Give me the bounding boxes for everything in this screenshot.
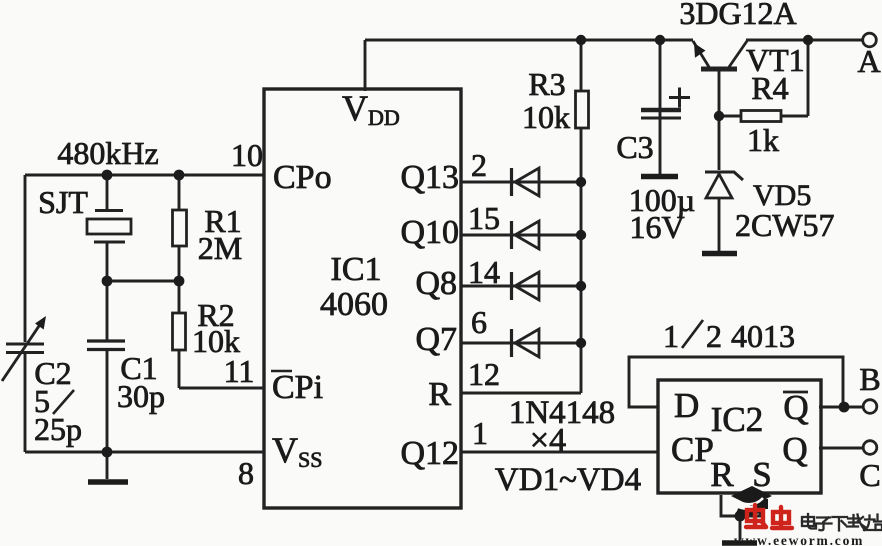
svg-text:10: 10 <box>231 137 263 173</box>
svg-text:R: R <box>428 376 451 413</box>
svg-text:11: 11 <box>224 353 255 389</box>
svg-text:15: 15 <box>468 200 500 236</box>
svg-text:VDD: VDD <box>342 88 400 130</box>
svg-text:VD1~VD4: VD1~VD4 <box>495 462 641 498</box>
svg-text:2: 2 <box>471 147 487 183</box>
svg-text:IC2: IC2 <box>711 400 764 439</box>
svg-text:R: R <box>710 455 734 494</box>
svg-text:16V: 16V <box>629 209 684 245</box>
svg-text:6: 6 <box>471 304 487 340</box>
svg-text:R4: R4 <box>751 70 788 106</box>
svg-text:CPo: CPo <box>273 159 332 196</box>
svg-text:CPi: CPi <box>272 369 323 406</box>
svg-text:Q10: Q10 <box>400 214 459 251</box>
svg-text:2: 2 <box>706 318 722 354</box>
svg-text:×4: ×4 <box>530 422 566 459</box>
svg-text:Q12: Q12 <box>400 435 459 472</box>
svg-text:30p: 30p <box>117 378 165 414</box>
svg-text:8: 8 <box>238 455 254 491</box>
svg-text:1: 1 <box>472 415 488 451</box>
svg-text:www.eeworm.com: www.eeworm.com <box>734 533 864 546</box>
svg-text:C: C <box>859 457 880 493</box>
svg-text:12: 12 <box>468 356 500 392</box>
svg-text:4060: 4060 <box>320 286 388 323</box>
svg-text:Q7: Q7 <box>415 321 457 358</box>
svg-text:B: B <box>859 361 880 397</box>
svg-text:IC1: IC1 <box>331 251 382 288</box>
svg-text:4013: 4013 <box>731 318 795 354</box>
svg-text:2M: 2M <box>198 230 242 266</box>
svg-text:480kHz: 480kHz <box>57 135 158 171</box>
svg-text:10k: 10k <box>522 99 570 135</box>
svg-text:25p: 25p <box>34 411 82 447</box>
svg-text:2CW57: 2CW57 <box>735 207 835 243</box>
svg-text:CP: CP <box>671 430 714 469</box>
svg-text:14: 14 <box>468 254 500 290</box>
svg-text:SJT: SJT <box>38 184 88 220</box>
svg-text:Q8: Q8 <box>415 265 457 302</box>
svg-text:Q: Q <box>783 388 808 427</box>
svg-text:VSS: VSS <box>272 430 322 472</box>
svg-text:R3: R3 <box>528 66 565 102</box>
svg-text:1k: 1k <box>747 122 779 158</box>
svg-text:Q13: Q13 <box>400 159 459 196</box>
svg-text:Q: Q <box>782 430 807 469</box>
svg-text:3DG12A: 3DG12A <box>679 0 796 31</box>
svg-text:C3: C3 <box>616 129 653 165</box>
svg-text:D: D <box>674 386 699 425</box>
svg-text:A: A <box>857 43 880 79</box>
svg-text:1: 1 <box>663 318 679 354</box>
